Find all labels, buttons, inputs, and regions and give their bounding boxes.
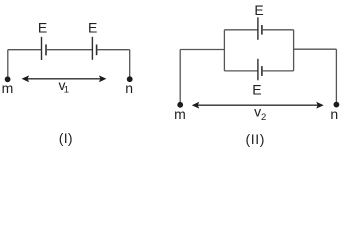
battery E4 long plate (bottom branch) (257, 59, 259, 81)
wire: circuit II right connection (294, 48, 337, 50)
wire: circuit I top wire left segment (8, 49, 42, 51)
battery E4 short plate (bottom branch) (261, 66, 263, 76)
label m (circuit II) (174, 106, 186, 122)
wire: circuit II left riser (179, 50, 181, 105)
label n (circuit I) (125, 80, 133, 96)
svg-text:(I): (I) (59, 130, 73, 146)
label n (circuit II) (330, 106, 338, 122)
battery E3 long plate (top branch) (257, 17, 259, 40)
wire: circuit II parallel box right edge (293, 30, 295, 71)
svg-text:n: n (330, 106, 338, 122)
label m (circuit I) (2, 80, 14, 96)
wire: circuit II right riser (335, 49, 337, 104)
wire: circuit I left riser (7, 50, 9, 80)
svg-text:m: m (174, 106, 186, 122)
label E (battery E2) (88, 20, 97, 36)
arrow v2 (double-headed) (192, 102, 324, 109)
wire: circuit II bottom branch left segment (224, 70, 258, 72)
label E (battery E1) (38, 20, 47, 36)
svg-text:E: E (88, 20, 97, 36)
wire: circuit II top branch left segment (224, 29, 258, 31)
wire: circuit I right riser (129, 50, 131, 79)
label E (battery E3) (254, 2, 263, 18)
svg-text:n: n (125, 80, 133, 96)
caption (I) (59, 130, 73, 146)
svg-text:E: E (254, 2, 263, 18)
svg-text:1: 1 (64, 85, 69, 96)
svg-text:E: E (38, 20, 47, 36)
node m (circuit II) (177, 102, 183, 108)
svg-text:(II): (II) (246, 131, 266, 147)
wire: circuit II top branch right segment (262, 29, 294, 31)
wire: circuit II left connection (180, 49, 224, 51)
arrow v1 (double-headed) (22, 75, 107, 82)
battery E1 long plate (41, 37, 43, 60)
wire: circuit II parallel box left edge (223, 30, 225, 71)
wire: circuit II bottom branch right segment (262, 70, 294, 72)
svg-text:2: 2 (261, 112, 266, 123)
wire: circuit I top wire right segment (97, 49, 130, 51)
battery E2 short plate (96, 45, 98, 56)
svg-text:E: E (252, 82, 261, 98)
svg-text:m: m (2, 80, 14, 96)
caption (II) (246, 131, 266, 147)
label E (battery E4) (252, 82, 261, 98)
battery E3 short plate (top branch) (261, 25, 263, 35)
battery E1 short plate (45, 44, 47, 55)
label v1 (59, 77, 70, 96)
node n (circuit I) (127, 76, 133, 82)
node n (circuit II) (334, 102, 340, 108)
node m (circuit I) (5, 76, 11, 82)
wire: circuit I top wire middle segment (46, 49, 92, 51)
battery E2 long plate (91, 37, 93, 60)
label v2 (254, 104, 266, 124)
